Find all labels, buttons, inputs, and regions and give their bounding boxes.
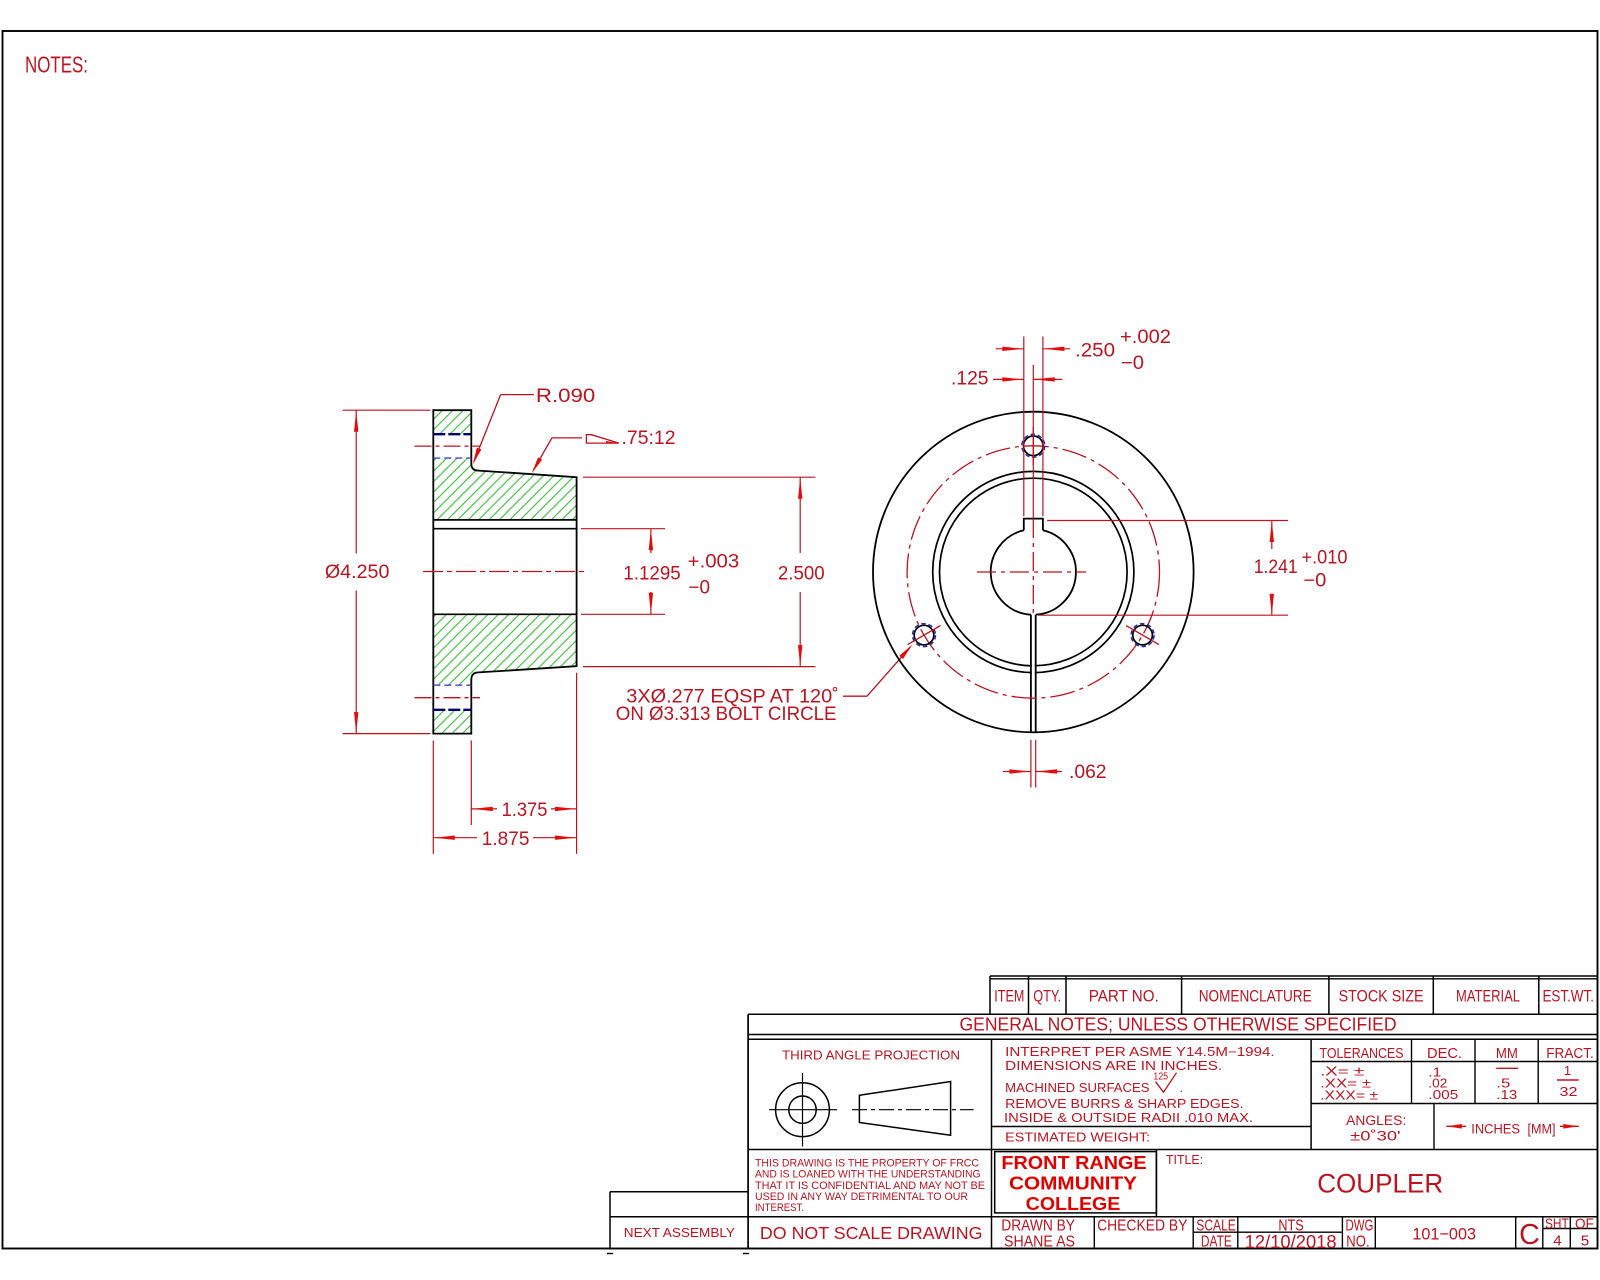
dimension D4.250 (355, 410, 357, 553)
bolt hole 1 center mark (1032, 427, 1034, 465)
taper ratio symbol (586, 435, 619, 443)
dimension D4.250 extension lines (343, 409, 431, 411)
svg-text:1: 1 (1564, 1063, 1571, 1078)
projection symbol cone (859, 1082, 950, 1136)
svg-text:ESTIMATED WEIGHT:: ESTIMATED WEIGHT: (1005, 1131, 1150, 1145)
svg-text:ON Ø3.313 BOLT CIRCLE: ON Ø3.313 BOLT CIRCLE (616, 704, 837, 725)
svg-text:ANGLES:: ANGLES: (1346, 1113, 1406, 1128)
svg-text:32: 32 (1560, 1084, 1578, 1099)
svg-text:THIRD ANGLE PROJECTION: THIRD ANGLE PROJECTION (782, 1048, 960, 1063)
projection symbol circles (776, 1083, 830, 1137)
svg-text:NOTES:: NOTES: (25, 52, 88, 78)
dimension .125 (993, 378, 1024, 380)
bolt hole 3 center mark (1126, 626, 1159, 645)
bore bottom line (section) (433, 613, 576, 615)
svg-text:.: . (1180, 1081, 1183, 1095)
dimension 1.375 (471, 808, 497, 810)
svg-text:101−003: 101−003 (1412, 1225, 1476, 1244)
svg-text:SHANE AS: SHANE AS (1004, 1234, 1075, 1251)
svg-text:QTY.: QTY. (1033, 987, 1061, 1006)
svg-text:ITEM: ITEM (994, 987, 1024, 1006)
svg-text:DATE: DATE (1201, 1234, 1232, 1251)
svg-text:FRONT RANGE: FRONT RANGE (1001, 1153, 1146, 1173)
bolt hole centerline top (section) (415, 445, 481, 447)
svg-text:.250: .250 (1075, 341, 1115, 362)
hidden bolt hole line top-inner (433, 457, 471, 459)
svg-text:DWG: DWG (1346, 1217, 1374, 1234)
fold tick marks (607, 1253, 613, 1255)
svg-text:Ø4.250: Ø4.250 (325, 562, 390, 583)
svg-text:1.1295: 1.1295 (623, 563, 680, 584)
svg-text:DIMENSIONS ARE IN INCHES.: DIMENSIONS ARE IN INCHES. (1005, 1059, 1222, 1073)
bore centerline (section) (423, 571, 585, 573)
hub circle small end (940, 478, 1128, 666)
next assembly box (610, 1191, 748, 1193)
svg-text:CHECKED BY: CHECKED BY (1097, 1217, 1188, 1234)
svg-text:1.875: 1.875 (482, 829, 530, 850)
keyway line (section) (433, 519, 576, 521)
section hatch lower hub region (433, 614, 576, 685)
svg-text:MATERIAL: MATERIAL (1456, 987, 1520, 1006)
dimension 2.500 (799, 477, 801, 553)
bolt hole 2 (914, 625, 934, 645)
svg-text:COMMUNITY: COMMUNITY (1009, 1174, 1137, 1194)
svg-text:FRACT.: FRACT. (1546, 1045, 1594, 1062)
svg-text:5: 5 (1581, 1232, 1589, 1249)
flange outer circle (873, 412, 1194, 733)
hidden bolt hole line bottom-inner (433, 684, 471, 686)
svg-text:−0: −0 (1303, 570, 1326, 591)
svg-text:NEXT ASSEMBLY: NEXT ASSEMBLY (624, 1225, 735, 1240)
svg-text:C: C (1519, 1219, 1540, 1251)
svg-text:GENERAL NOTES; UNLESS OTHERWIS: GENERAL NOTES; UNLESS OTHERWISE SPECIFIE… (960, 1015, 1397, 1035)
dimension .062 extension lines (1030, 740, 1032, 788)
bore top line (section) (433, 528, 576, 530)
center extension line (1032, 365, 1034, 519)
bolt hole centerline bottom (section) (415, 697, 481, 699)
svg-text:1.241: 1.241 (1254, 557, 1298, 578)
coupler section outline (433, 410, 576, 733)
dimension 1.875 extension line (432, 741, 434, 854)
svg-text:PART NO.: PART NO. (1089, 987, 1159, 1006)
svg-text:MACHINED SURFACES: MACHINED SURFACES (1005, 1081, 1149, 1095)
title cell (1155, 1150, 1157, 1217)
svg-text:12/10/2018: 12/10/2018 (1245, 1232, 1337, 1252)
front range community college logo box (995, 1152, 1157, 1213)
svg-text:OF: OF (1575, 1215, 1594, 1232)
keyway width extension lines (1023, 337, 1025, 517)
svg-text:.75:12: .75:12 (622, 428, 676, 449)
bolt hole 2 center mark (908, 626, 941, 645)
general notes band (748, 1013, 990, 1015)
bolt hole 1 (1024, 436, 1044, 456)
svg-text:4: 4 (1553, 1232, 1561, 1249)
svg-text:TITLE:: TITLE: (1166, 1152, 1203, 1167)
leader to bolt hole (843, 695, 867, 697)
svg-text:INTEREST.: INTEREST. (755, 1202, 804, 1214)
svg-text:REMOVE BURRS & SHARP EDGES.: REMOVE BURRS & SHARP EDGES. (1005, 1097, 1243, 1111)
svg-text:+.010: +.010 (1302, 547, 1348, 568)
svg-text:+.002: +.002 (1120, 327, 1171, 348)
dimension 1.241 (1271, 521, 1273, 550)
leader .75:12 (552, 437, 582, 439)
dimension 1.875 (433, 837, 477, 839)
svg-text:TOLERANCES: TOLERANCES (1320, 1045, 1404, 1062)
svg-text:SCALE: SCALE (1196, 1217, 1236, 1234)
hidden bolt hole line bottom-outer (433, 709, 471, 711)
svg-text:.062: .062 (1069, 762, 1107, 783)
third angle cell bottom (748, 1149, 991, 1151)
svg-text:±0˚30': ±0˚30' (1350, 1129, 1400, 1144)
dimension 1.375 extension lines (470, 741, 472, 826)
inches mm cell (1446, 1125, 1466, 1127)
svg-text:DRAWN BY: DRAWN BY (1001, 1217, 1075, 1234)
svg-text:INTERPRET PER ASME Y14.5M−1994: INTERPRET PER ASME Y14.5M−1994. (1005, 1045, 1274, 1059)
svg-text:DEC.: DEC. (1427, 1045, 1462, 1062)
section hatch flange top segment (433, 410, 471, 434)
projection symbol cone centerline (852, 1109, 974, 1111)
svg-text:.13: .13 (1496, 1087, 1517, 1102)
clamp slit (1032, 616, 1035, 731)
svg-text:DO NOT SCALE DRAWING: DO NOT SCALE DRAWING (760, 1223, 983, 1243)
scale date divider (1193, 1231, 1342, 1233)
signature row verticals (1093, 1217, 1095, 1249)
leader R.090 (501, 394, 534, 396)
view centerline vertical (1032, 519, 1034, 614)
section hatch upper hub region (433, 458, 576, 520)
dimension .062 (1003, 771, 1031, 773)
item table strip (990, 975, 1598, 977)
svg-text:R.090: R.090 (536, 386, 595, 407)
view centerline horizontal (977, 571, 1086, 573)
svg-text:EST.WT.: EST.WT. (1542, 987, 1594, 1006)
sht of divider (1543, 1228, 1598, 1230)
bolt circle centerline (907, 446, 1159, 698)
tolerances table (1310, 1039, 1312, 1149)
svg-text:COLLEGE: COLLEGE (1026, 1194, 1121, 1214)
svg-text:STOCK SIZE: STOCK SIZE (1339, 987, 1424, 1006)
dimension 1.1295 extension lines (581, 528, 665, 530)
dimension 2.500 extension lines (583, 476, 815, 478)
hub circle large end (933, 471, 1134, 672)
svg-text:−0: −0 (1121, 353, 1144, 374)
svg-text:NO.: NO. (1346, 1234, 1369, 1251)
projection symbol crosshair (802, 1073, 804, 1146)
dimension 1.241 extension lines (1047, 520, 1288, 522)
estimated weight cell (992, 1126, 1312, 1128)
svg-text:NOMENCLATURE: NOMENCLATURE (1199, 987, 1312, 1006)
svg-text:.005: .005 (1428, 1087, 1458, 1102)
keyway slot (1024, 519, 1043, 531)
section hatch flange bottom segment (433, 710, 471, 734)
svg-text:.XXX= ±: .XXX= ± (1320, 1087, 1378, 1102)
bolt hole 3 (1133, 625, 1153, 645)
angles cell (1433, 1104, 1435, 1150)
svg-text:AND IS LOANED WITH THE UNDERST: AND IS LOANED WITH THE UNDERSTANDING (755, 1169, 981, 1181)
svg-text:COUPLER: COUPLER (1317, 1168, 1443, 1198)
svg-text:+.003: +.003 (688, 552, 740, 573)
bore circle with keyway (991, 530, 1031, 614)
hidden bolt hole line top-outer (433, 433, 471, 435)
svg-text:[MM]: [MM] (1528, 1122, 1556, 1137)
svg-text:.125: .125 (951, 369, 989, 390)
svg-text:INSIDE & OUTSIDE RADII .010 MA: INSIDE & OUTSIDE RADII .010 MAX. (1004, 1111, 1253, 1125)
svg-text:2.500: 2.500 (778, 563, 825, 584)
svg-text:INCHES: INCHES (1471, 1122, 1520, 1137)
dimension .250 (996, 348, 1024, 350)
svg-text:−0: −0 (688, 578, 710, 599)
svg-text:125: 125 (1153, 1072, 1168, 1083)
svg-text:1.375: 1.375 (502, 800, 548, 821)
svg-text:MM: MM (1496, 1045, 1518, 1062)
title block outer verticals (747, 1014, 749, 1248)
dimension 1.1295 (650, 529, 652, 553)
svg-text:SHT: SHT (1545, 1215, 1569, 1232)
